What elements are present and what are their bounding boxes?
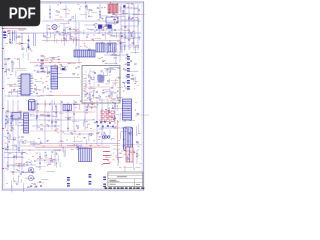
svg-text:PDF: PDF [9, 5, 36, 22]
